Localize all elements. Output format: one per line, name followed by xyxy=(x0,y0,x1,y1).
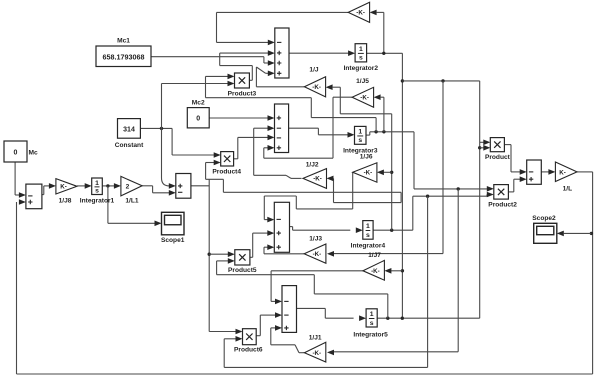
svg-text:1/J3: 1/J3 xyxy=(309,235,322,242)
svg-text:-K-: -K- xyxy=(371,268,380,275)
svg-text:Product2: Product2 xyxy=(488,202,517,209)
svg-text:Mc: Mc xyxy=(29,150,38,157)
svg-text:1: 1 xyxy=(366,223,370,230)
svg-text:1: 1 xyxy=(95,180,99,187)
svg-text:s: s xyxy=(366,232,370,239)
svg-text:K-: K- xyxy=(559,169,566,176)
svg-text:K-: K- xyxy=(60,184,67,191)
svg-text:314: 314 xyxy=(123,126,135,133)
svg-text:-K-: -K- xyxy=(313,251,322,258)
svg-text:1/L1: 1/L1 xyxy=(125,198,139,205)
svg-text:s: s xyxy=(370,320,374,327)
svg-text:2: 2 xyxy=(126,183,130,190)
svg-text:1/J1: 1/J1 xyxy=(309,334,322,341)
svg-text:1/J8: 1/J8 xyxy=(59,198,72,205)
svg-text:1: 1 xyxy=(370,311,374,318)
svg-text:Product: Product xyxy=(485,154,511,161)
svg-text:0: 0 xyxy=(14,150,18,157)
svg-text:Mc1: Mc1 xyxy=(117,38,130,45)
svg-text:Product6: Product6 xyxy=(234,347,263,354)
svg-text:Product4: Product4 xyxy=(212,169,241,176)
svg-text:Integrator4: Integrator4 xyxy=(351,243,386,250)
svg-text:Integrator2: Integrator2 xyxy=(344,65,379,72)
svg-text:1: 1 xyxy=(359,46,363,53)
svg-text:-K-: -K- xyxy=(313,176,322,183)
svg-text:Constant: Constant xyxy=(115,142,144,149)
svg-text:Mc2: Mc2 xyxy=(192,100,205,107)
svg-text:-K-: -K- xyxy=(364,170,373,177)
svg-text:1/J: 1/J xyxy=(309,67,318,74)
svg-text:s: s xyxy=(95,187,99,194)
svg-text:Integrator1: Integrator1 xyxy=(80,198,115,205)
svg-text:0: 0 xyxy=(196,116,200,123)
svg-text:Scope2: Scope2 xyxy=(532,215,556,222)
svg-text:s: s xyxy=(359,55,363,62)
svg-text:-K-: -K- xyxy=(312,84,321,91)
svg-text:658.1793068: 658.1793068 xyxy=(103,53,145,62)
svg-text:s: s xyxy=(358,137,362,144)
svg-text:Product5: Product5 xyxy=(228,267,257,274)
svg-text:Product3: Product3 xyxy=(228,91,257,98)
svg-text:Integrator5: Integrator5 xyxy=(353,332,388,339)
svg-text:1/L: 1/L xyxy=(563,186,573,193)
svg-text:1/J6: 1/J6 xyxy=(360,154,373,161)
svg-text:1: 1 xyxy=(358,129,362,136)
svg-text:1/J5: 1/J5 xyxy=(356,78,369,85)
svg-text:1/J2: 1/J2 xyxy=(306,162,319,169)
svg-text:-K-: -K- xyxy=(360,95,369,102)
svg-text:-K-: -K- xyxy=(313,350,322,357)
svg-text:1/J7: 1/J7 xyxy=(368,252,381,259)
svg-text:Scope1: Scope1 xyxy=(161,237,185,244)
svg-text:-K-: -K- xyxy=(356,10,365,17)
